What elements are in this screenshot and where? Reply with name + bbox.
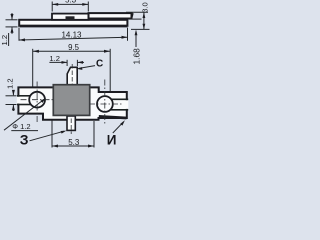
right ear bottom edge (thick, slightly tilted) [99, 116, 127, 118]
left ear slot (open to left edge) [17, 96, 32, 105]
slot width dim 1.2 (far left) [6, 78, 17, 111]
dimension 3.0 (right, overall height) [126, 2, 150, 29]
gray ceramic body (plan) [53, 85, 89, 116]
svg-text:Ф 1.2: Ф 1.2 [12, 122, 30, 131]
top lead C (plan) [67, 67, 77, 86]
svg-text:3.0: 3.0 [141, 2, 150, 13]
flange (side view body plate) [19, 20, 127, 26]
svg-text:5.3: 5.3 [68, 138, 80, 147]
die blob at cap bottom center [66, 16, 75, 20]
dimension 1.68 (right, lead underside to flange bottom) [129, 13, 142, 65]
lead centerlines dashed [71, 64, 72, 134]
svg-text:1.2: 1.2 [6, 78, 15, 89]
svg-text:9.5: 9.5 [68, 43, 80, 52]
svg-text:И: И [107, 133, 117, 148]
dimension 9.5 (plan center section width) [33, 43, 111, 91]
left hole centerlines (dash-dot) [21, 82, 54, 123]
label И (source/flange) with leader [107, 120, 125, 147]
label 3 (gate lead) with leader [20, 131, 67, 148]
left ear mounting hole [29, 92, 45, 108]
right hole centerlines (dash-dot) [89, 80, 123, 125]
cap (ceramic body, side view) [52, 14, 89, 20]
svg-text:1.68: 1.68 [131, 48, 141, 65]
svg-text:З: З [20, 132, 29, 148]
label Ф 1.2 (hole diameter) with leader through hole [4, 98, 46, 131]
dimension 1.2 (left, flange thickness) [0, 13, 18, 46]
flange plate outline (plan view with ears and stepped center section) [18, 87, 126, 119]
dimension 1.2 (top lead width) [49, 54, 84, 66]
dimension 14.13 (flange length) [19, 28, 128, 42]
svg-text:14.13: 14.13 [61, 30, 82, 39]
dimension 5.3 (top, cap width), text clipped at image top [52, 0, 88, 11]
right ear mounting hole [97, 96, 113, 112]
svg-text:1.2: 1.2 [0, 35, 9, 46]
svg-text:C: C [96, 59, 103, 70]
bottom lead 3 (plan) [67, 116, 75, 130]
label C (collector/drain lead) with leader [76, 59, 103, 70]
svg-text:1.2: 1.2 [49, 54, 60, 63]
dimension 5.3 (bottom) [52, 121, 94, 148]
right ear slot (open to right edge) [111, 99, 129, 110]
lead (right, side view) [89, 13, 132, 18]
